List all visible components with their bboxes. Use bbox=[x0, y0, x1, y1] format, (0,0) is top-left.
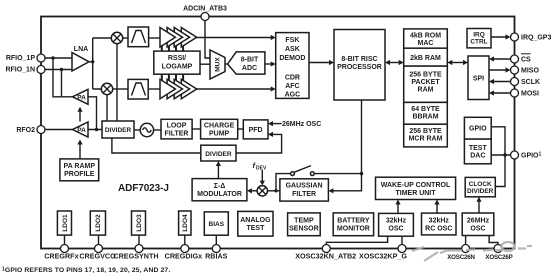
svg-text:DAC: DAC bbox=[470, 152, 485, 159]
svg-text:RFIO_1P: RFIO_1P bbox=[6, 55, 36, 62]
svg-text:ADC: ADC bbox=[242, 65, 257, 72]
svg-text:256 BYTE: 256 BYTE bbox=[409, 128, 442, 135]
svg-text:BBRAM: BBRAM bbox=[412, 114, 438, 121]
svg-text:LDO3: LDO3 bbox=[136, 214, 143, 232]
svg-text:FILTER: FILTER bbox=[165, 131, 189, 138]
svg-text:CDR: CDR bbox=[285, 75, 300, 82]
svg-text:OSC: OSC bbox=[388, 226, 403, 233]
svg-text:CS: CS bbox=[521, 57, 531, 64]
svg-text:AGC: AGC bbox=[285, 92, 301, 99]
svg-text:MONITOR: MONITOR bbox=[337, 225, 370, 232]
svg-text:GAUSSIAN: GAUSSIAN bbox=[286, 183, 323, 190]
svg-text:CLOCK: CLOCK bbox=[469, 181, 492, 188]
svg-text:CREGRFx: CREGRFx bbox=[44, 252, 78, 261]
svg-text:XOSC26P: XOSC26P bbox=[485, 254, 512, 261]
svg-text:LNA: LNA bbox=[74, 46, 88, 53]
svg-text:MODULATOR: MODULATOR bbox=[197, 191, 242, 198]
svg-text:XOSC26N: XOSC26N bbox=[447, 254, 475, 261]
svg-text:DIVIDER: DIVIDER bbox=[467, 188, 494, 195]
svg-text:TEST: TEST bbox=[469, 145, 488, 152]
svg-text:Σ-Δ: Σ-Δ bbox=[214, 183, 226, 190]
svg-text:LOGAMP: LOGAMP bbox=[162, 64, 193, 71]
svg-text:PROFILE: PROFILE bbox=[64, 171, 95, 178]
svg-text:AFC: AFC bbox=[285, 83, 299, 90]
svg-text:CTRL: CTRL bbox=[470, 39, 487, 46]
svg-text:MOSI: MOSI bbox=[521, 91, 539, 98]
svg-text:WAKE-UP CONTROL: WAKE-UP CONTROL bbox=[381, 182, 451, 189]
svg-text:RFIO_1N: RFIO_1N bbox=[5, 67, 35, 74]
svg-text:32kHz: 32kHz bbox=[386, 218, 407, 225]
svg-text:CREGVCO: CREGVCO bbox=[79, 252, 116, 261]
svg-text:1GPIO REFERS TO PINS 17, 18, 1: 1GPIO REFERS TO PINS 17, 18, 19, 20, 25,… bbox=[2, 267, 170, 275]
svg-text:DIVIDER: DIVIDER bbox=[105, 127, 132, 134]
svg-text:8-BIT RISC: 8-BIT RISC bbox=[341, 56, 377, 63]
svg-text:64 BYTE: 64 BYTE bbox=[411, 106, 440, 113]
svg-text:GPIO1: GPIO1 bbox=[521, 152, 542, 160]
svg-text:GPIO: GPIO bbox=[469, 126, 487, 133]
svg-text:2kB RAM: 2kB RAM bbox=[410, 55, 441, 62]
svg-text:RSSI/: RSSI/ bbox=[168, 55, 186, 62]
svg-text:BATTERY: BATTERY bbox=[337, 217, 370, 224]
svg-text:TIMER UNIT: TIMER UNIT bbox=[395, 190, 436, 197]
svg-text:PROCESSOR: PROCESSOR bbox=[337, 64, 382, 71]
svg-text:DEMOD: DEMOD bbox=[279, 55, 305, 62]
svg-text:LOOP: LOOP bbox=[167, 123, 187, 130]
svg-text:ADCIN_ATB3: ADCIN_ATB3 bbox=[183, 6, 227, 13]
svg-text:CREGDIGx: CREGDIGx bbox=[165, 252, 203, 261]
svg-text:OSC: OSC bbox=[470, 225, 485, 232]
svg-text:32kHz: 32kHz bbox=[429, 217, 450, 224]
svg-text:XOSC32KN_ATB2: XOSC32KN_ATB2 bbox=[295, 252, 356, 261]
svg-text:FILTER: FILTER bbox=[292, 191, 316, 198]
svg-text:LDO4: LDO4 bbox=[182, 214, 189, 232]
svg-text:LDO2: LDO2 bbox=[95, 214, 102, 232]
svg-text:PUMP: PUMP bbox=[209, 131, 230, 138]
svg-text:PA RAMP: PA RAMP bbox=[64, 163, 96, 170]
svg-text:LDO1: LDO1 bbox=[62, 214, 69, 232]
svg-text:26MHz OSC: 26MHz OSC bbox=[282, 121, 321, 128]
svg-text:TEST: TEST bbox=[246, 225, 265, 232]
svg-text:CREGSYNTH: CREGSYNTH bbox=[113, 252, 158, 261]
svg-text:RAM: RAM bbox=[418, 87, 434, 94]
svg-text:MAC: MAC bbox=[418, 40, 434, 47]
svg-text:BIAS: BIAS bbox=[209, 221, 225, 228]
svg-text:PACKET: PACKET bbox=[411, 79, 440, 86]
svg-text:SENSOR: SENSOR bbox=[289, 225, 319, 232]
svg-text:ADF7023-J: ADF7023-J bbox=[118, 183, 169, 194]
svg-text:TEMP: TEMP bbox=[294, 217, 314, 224]
svg-text:XOSC32KP_G: XOSC32KP_G bbox=[359, 252, 407, 261]
svg-text:MCR RAM: MCR RAM bbox=[409, 135, 443, 142]
svg-text:ANALOG: ANALOG bbox=[240, 217, 271, 224]
svg-text:SCLK: SCLK bbox=[521, 79, 540, 86]
svg-text:RBIAS: RBIAS bbox=[205, 252, 228, 261]
svg-text:4kB ROM: 4kB ROM bbox=[410, 33, 441, 40]
svg-text:DIVIDER: DIVIDER bbox=[205, 151, 232, 158]
svg-text:MISO: MISO bbox=[521, 68, 539, 75]
svg-text:DEV: DEV bbox=[256, 166, 267, 172]
svg-text:RC OSC: RC OSC bbox=[425, 225, 452, 232]
svg-text:26MHz: 26MHz bbox=[467, 217, 490, 224]
svg-text:PA: PA bbox=[77, 94, 86, 101]
svg-text:8-BIT: 8-BIT bbox=[241, 57, 259, 64]
svg-text:IRQ: IRQ bbox=[473, 32, 485, 39]
svg-text:CHARGE: CHARGE bbox=[204, 123, 235, 130]
svg-text:SPI: SPI bbox=[473, 75, 484, 82]
svg-text:ASK: ASK bbox=[285, 46, 300, 53]
svg-text:IRQ_GP3: IRQ_GP3 bbox=[521, 35, 551, 42]
svg-text:MUX: MUX bbox=[215, 57, 222, 72]
svg-text:RFO2: RFO2 bbox=[16, 127, 35, 134]
svg-text:PFD: PFD bbox=[249, 127, 263, 134]
svg-text:256 BYTE: 256 BYTE bbox=[409, 72, 442, 79]
svg-text:FSK: FSK bbox=[285, 37, 299, 44]
svg-text:PA: PA bbox=[77, 127, 86, 134]
